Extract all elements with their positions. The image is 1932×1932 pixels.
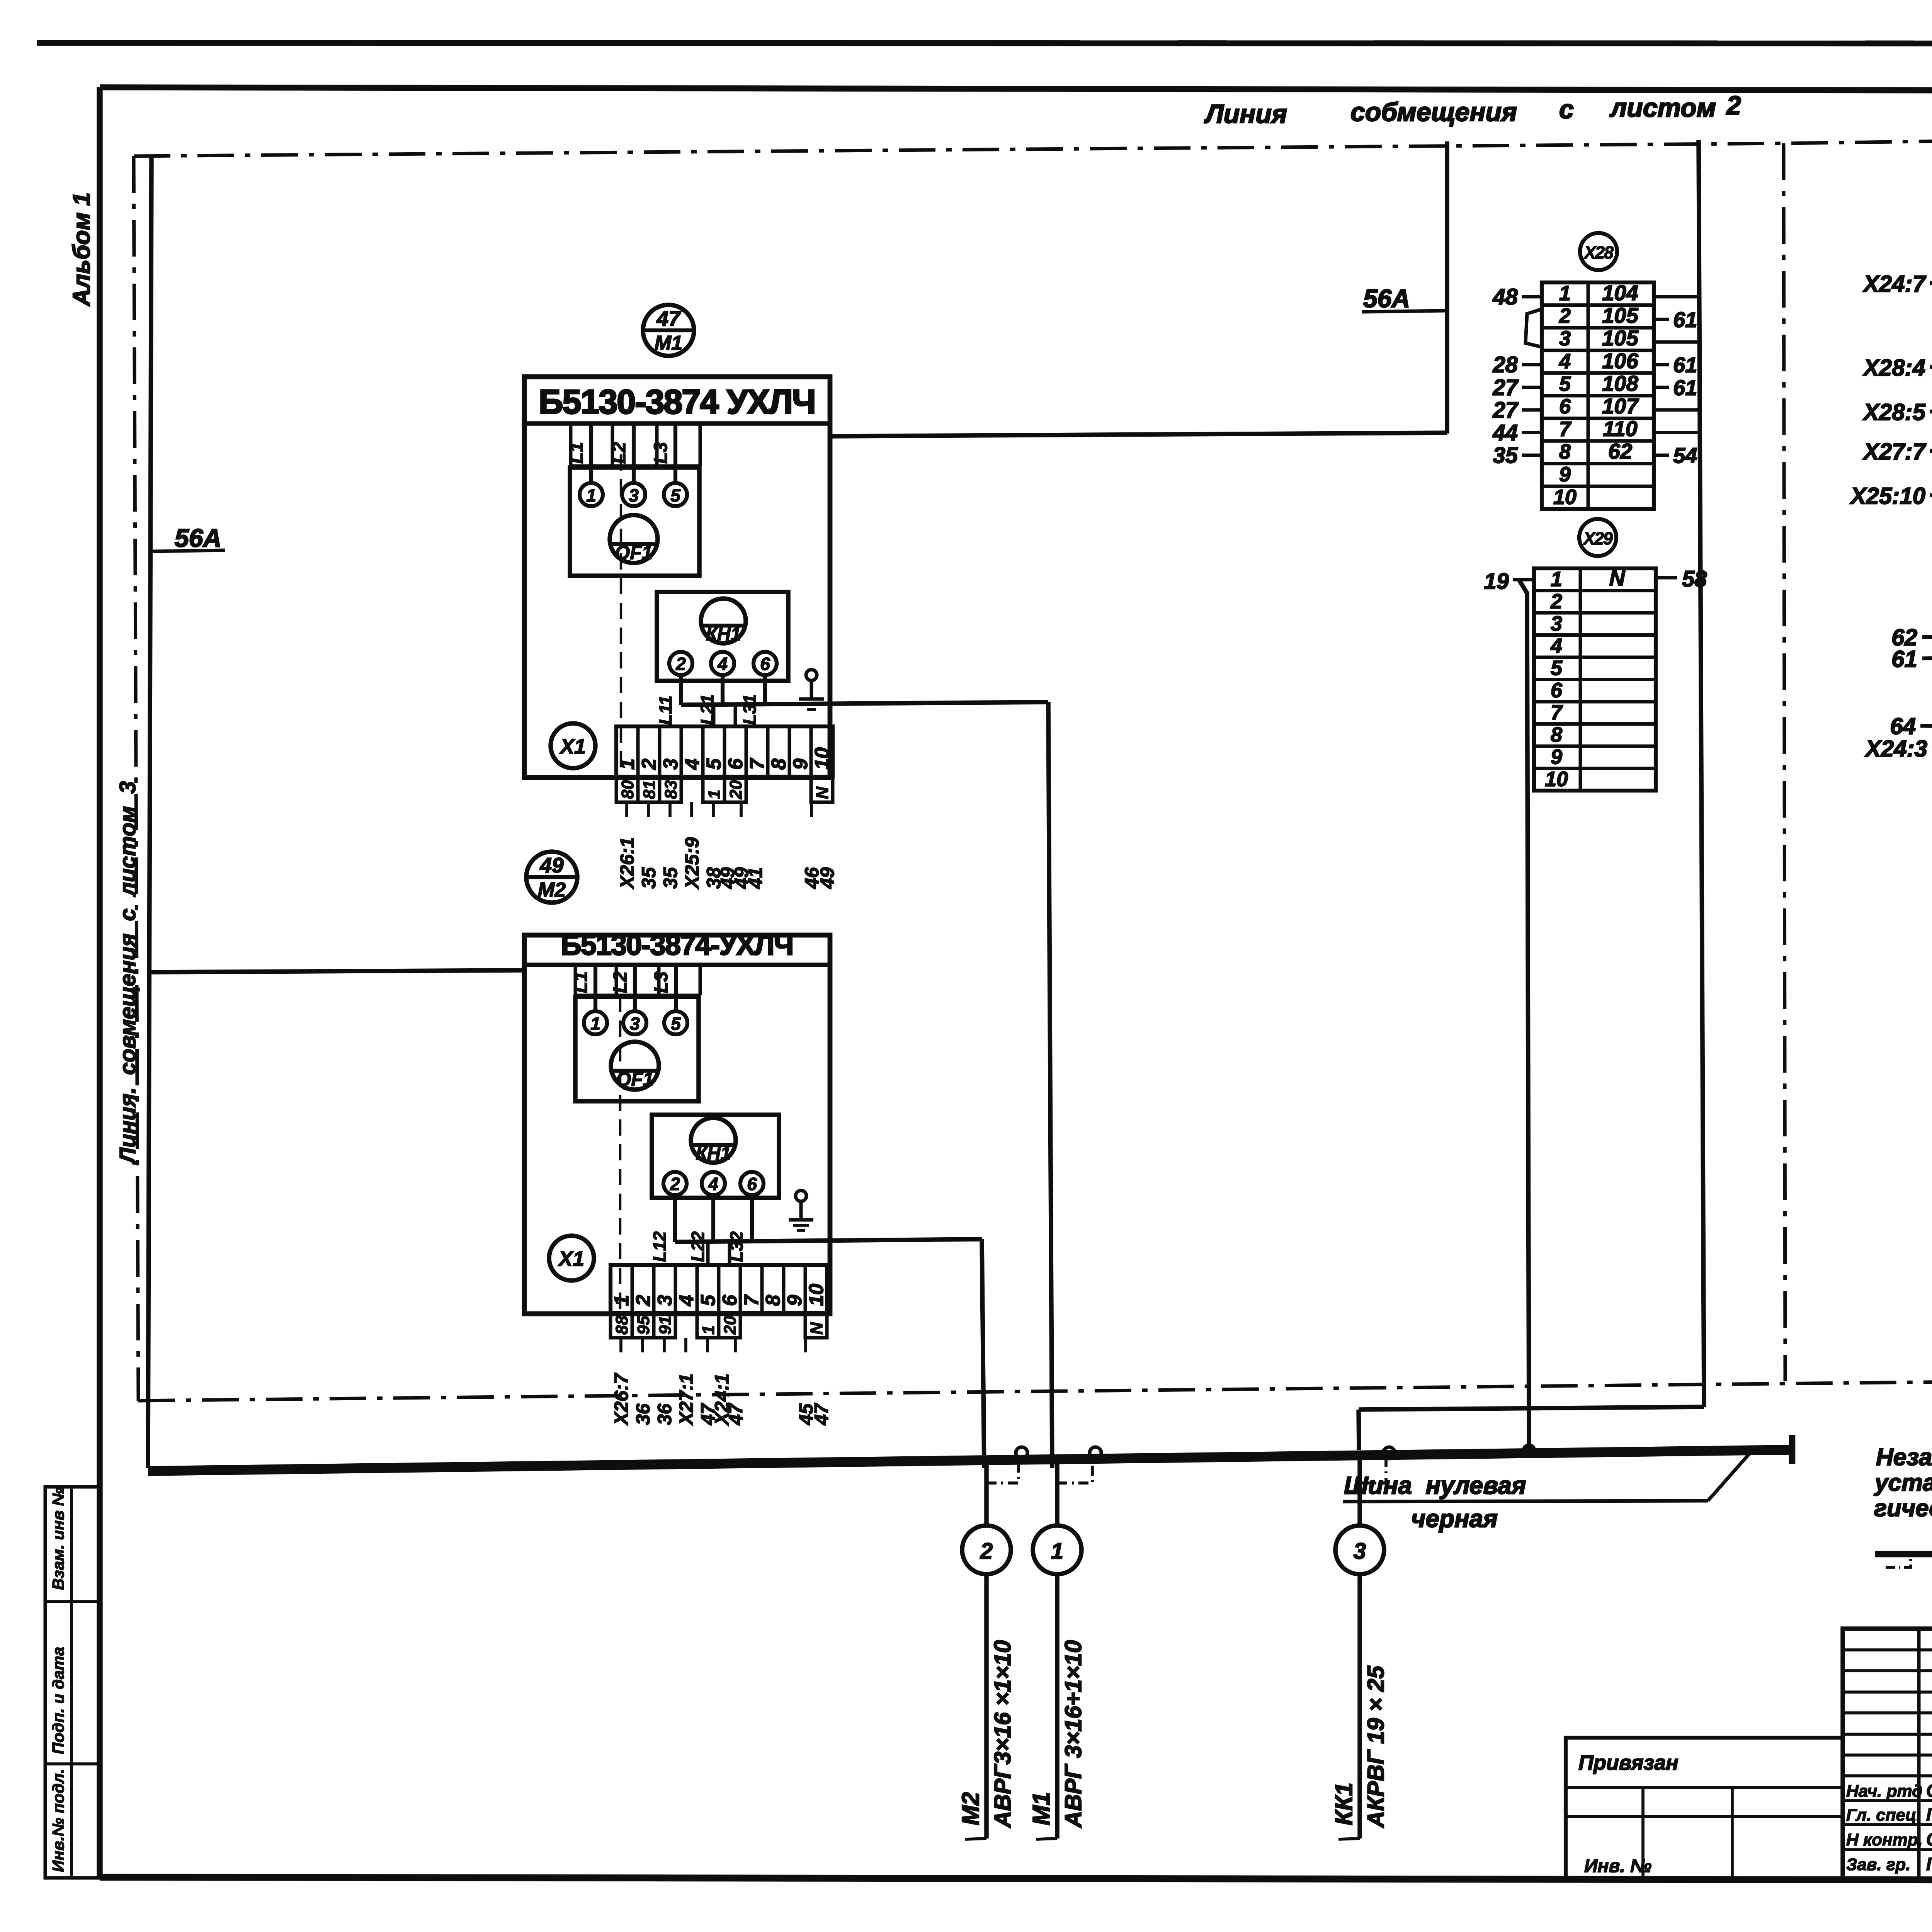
svg-text:7: 7 <box>746 758 769 770</box>
svg-text:Привязан: Привязан <box>1578 1751 1679 1774</box>
svg-text:3: 3 <box>1559 327 1571 350</box>
svg-text:91: 91 <box>656 1316 675 1335</box>
svg-text:35: 35 <box>638 867 660 889</box>
svg-text:27: 27 <box>1492 398 1519 423</box>
svg-text:X24:7: X24:7 <box>1862 271 1927 297</box>
svg-text:80: 80 <box>618 780 637 799</box>
svg-text:Инв.№ подл.: Инв.№ подл. <box>49 1769 67 1872</box>
svg-text:2: 2 <box>675 654 686 674</box>
svg-text:Линия. совмещения с листом: Линия. совмещения с листом 3 <box>115 781 140 1165</box>
svg-text:1: 1 <box>1051 1539 1063 1564</box>
svg-text:44: 44 <box>1492 420 1518 446</box>
svg-text:Сиганова: Сиганова <box>1926 1829 1932 1849</box>
svg-text:95: 95 <box>634 1316 653 1335</box>
svg-text:L1: L1 <box>571 971 591 993</box>
svg-text:М2: М2 <box>957 1792 984 1825</box>
svg-text:X26:1: X26:1 <box>616 837 638 890</box>
svg-text:3: 3 <box>660 759 682 770</box>
svg-text:61: 61 <box>1673 308 1697 332</box>
svg-text:2: 2 <box>1550 590 1562 613</box>
svg-text:собмещения: собмещения <box>1350 97 1517 127</box>
svg-text:N: N <box>807 1322 826 1335</box>
svg-text:10: 10 <box>811 747 833 770</box>
svg-text:106: 106 <box>1602 349 1638 373</box>
svg-text:Б5130-3874 УХЛЧ: Б5130-3874 УХЛЧ <box>539 383 815 421</box>
svg-text:X29: X29 <box>1582 529 1613 548</box>
svg-text:2: 2 <box>980 1539 993 1564</box>
svg-text:1: 1 <box>699 1325 718 1335</box>
svg-text:36: 36 <box>632 1403 654 1425</box>
svg-text:6: 6 <box>1559 395 1571 418</box>
svg-text:9: 9 <box>1559 463 1571 486</box>
svg-text:4: 4 <box>1550 634 1562 658</box>
svg-text:5: 5 <box>1559 372 1571 395</box>
svg-text:28: 28 <box>1492 352 1518 378</box>
svg-text:108: 108 <box>1602 371 1638 395</box>
svg-text:6: 6 <box>1551 679 1563 702</box>
svg-text:56А: 56А <box>175 524 221 552</box>
svg-text:61: 61 <box>1673 375 1697 400</box>
svg-text:61: 61 <box>1673 353 1697 377</box>
svg-text:8: 8 <box>1559 440 1571 463</box>
svg-text:Нач. ртд: Нач. ртд <box>1846 1782 1922 1801</box>
svg-text:АВРГ3×16 ×1×10: АВРГ3×16 ×1×10 <box>990 1640 1015 1828</box>
svg-text:8: 8 <box>768 759 790 770</box>
svg-text:КН1: КН1 <box>696 1143 731 1164</box>
svg-text:10: 10 <box>1553 485 1577 509</box>
svg-text:3: 3 <box>1354 1539 1366 1564</box>
svg-text:105: 105 <box>1602 326 1638 350</box>
svg-text:104: 104 <box>1602 281 1638 305</box>
svg-text:4: 4 <box>717 654 728 674</box>
svg-text:49: 49 <box>816 867 838 889</box>
svg-text:7: 7 <box>1559 418 1572 441</box>
svg-text:58: 58 <box>1682 566 1707 592</box>
svg-text:N: N <box>813 786 832 799</box>
svg-text:X25:10: X25:10 <box>1850 483 1925 509</box>
svg-text:Гисис: Гисис <box>1926 1804 1932 1825</box>
svg-text:1: 1 <box>590 1014 600 1034</box>
svg-text:10: 10 <box>805 1284 828 1306</box>
svg-text:Подп. и дата: Подп. и дата <box>49 1647 67 1754</box>
svg-text:47: 47 <box>656 306 681 330</box>
svg-text:1: 1 <box>705 790 724 799</box>
svg-text:Н контр.: Н контр. <box>1846 1830 1923 1849</box>
svg-text:36: 36 <box>654 1403 675 1425</box>
svg-text:83: 83 <box>662 780 680 799</box>
svg-text:L2: L2 <box>610 971 631 993</box>
svg-text:9: 9 <box>784 1295 806 1306</box>
svg-text:9: 9 <box>789 759 812 770</box>
svg-text:1: 1 <box>586 485 596 505</box>
svg-text:2: 2 <box>1726 91 1741 120</box>
svg-text:Шина нулевая: Шина нулевая <box>1344 1471 1526 1499</box>
svg-text:35: 35 <box>1493 443 1518 468</box>
svg-text:КК1: КК1 <box>1331 1782 1357 1825</box>
svg-text:QF1: QF1 <box>615 542 652 563</box>
svg-text:X25:9: X25:9 <box>681 837 703 890</box>
svg-text:X1: X1 <box>559 735 586 758</box>
svg-text:20: 20 <box>721 1316 740 1335</box>
svg-text:X28: X28 <box>1583 243 1614 262</box>
svg-text:L3: L3 <box>651 971 672 993</box>
svg-text:19: 19 <box>1484 569 1509 594</box>
svg-text:3: 3 <box>1551 612 1562 635</box>
svg-text:Гл. спец.: Гл. спец. <box>1846 1806 1921 1825</box>
svg-text:АВРГ 3×16+1×10: АВРГ 3×16+1×10 <box>1060 1640 1086 1828</box>
svg-text:9: 9 <box>1551 745 1562 769</box>
svg-text:листом: листом <box>1609 93 1716 122</box>
svg-text:62: 62 <box>1608 439 1632 463</box>
svg-text:4: 4 <box>681 759 704 770</box>
svg-text:3: 3 <box>629 485 639 505</box>
svg-text:4: 4 <box>675 1295 698 1306</box>
svg-text:10: 10 <box>1545 768 1568 791</box>
svg-text:2: 2 <box>632 1295 655 1306</box>
svg-text:5: 5 <box>670 485 681 505</box>
svg-text:5: 5 <box>703 758 725 770</box>
svg-text:L22: L22 <box>688 1231 708 1262</box>
svg-text:1: 1 <box>616 759 639 770</box>
svg-text:3: 3 <box>654 1295 676 1306</box>
svg-text:КН1: КН1 <box>706 624 741 645</box>
svg-text:L2: L2 <box>609 442 629 464</box>
svg-text:X28:4: X28:4 <box>1862 355 1925 381</box>
svg-text:48: 48 <box>1492 284 1518 310</box>
svg-text:Альбом 1: Альбом 1 <box>68 192 95 307</box>
svg-text:Взам. инв №: Взам. инв № <box>49 1487 67 1590</box>
svg-text:QF1: QF1 <box>616 1068 653 1090</box>
svg-text:N: N <box>1609 566 1626 590</box>
svg-text:Линия: Линия <box>1204 99 1287 129</box>
svg-text:41: 41 <box>745 867 766 889</box>
svg-text:1: 1 <box>611 1295 633 1306</box>
svg-text:27: 27 <box>1492 375 1519 400</box>
svg-text:М1: М1 <box>1028 1792 1055 1825</box>
svg-text:L12: L12 <box>650 1231 670 1262</box>
svg-text:X27:7: X27:7 <box>1862 439 1927 464</box>
svg-text:61: 61 <box>1891 646 1917 672</box>
svg-text:6: 6 <box>719 1294 741 1306</box>
svg-text:4: 4 <box>708 1174 718 1194</box>
svg-text:7: 7 <box>740 1294 763 1306</box>
svg-text:1: 1 <box>1551 568 1562 591</box>
svg-text:2: 2 <box>1559 304 1571 328</box>
svg-text:88: 88 <box>612 1316 631 1335</box>
svg-text:Б5130-3874-УХЛЧ: Б5130-3874-УХЛЧ <box>561 929 793 961</box>
svg-text:49: 49 <box>539 853 564 877</box>
svg-text:М2: М2 <box>538 879 566 901</box>
svg-text:20: 20 <box>726 780 745 799</box>
svg-text:L31: L31 <box>740 694 760 725</box>
svg-text:81: 81 <box>640 780 659 799</box>
svg-text:3: 3 <box>630 1014 640 1034</box>
svg-text:Инв. №: Инв. № <box>1584 1856 1651 1876</box>
svg-text:гическога процесса при нала: гическога процесса при наладке и опробов… <box>1874 1495 1932 1522</box>
svg-text:АКРВГ 19 × 25: АКРВГ 19 × 25 <box>1363 1665 1389 1828</box>
svg-text:105: 105 <box>1602 303 1638 328</box>
svg-text:8: 8 <box>762 1295 784 1306</box>
svg-text:7: 7 <box>1551 701 1563 724</box>
svg-text:47: 47 <box>811 1403 832 1425</box>
svg-text:Семин: Семин <box>1926 1781 1932 1801</box>
svg-text:64: 64 <box>1890 713 1916 739</box>
svg-text:6: 6 <box>747 1174 757 1194</box>
svg-text:X28:5: X28:5 <box>1862 399 1926 425</box>
svg-text:X24:3: X24:3 <box>1864 736 1927 762</box>
svg-text:8: 8 <box>1551 723 1562 747</box>
svg-text:6: 6 <box>760 654 770 674</box>
svg-text:устанавливаются для возможно: устанавливаются для возможности корректи… <box>1874 1469 1932 1496</box>
svg-text:5: 5 <box>671 1014 681 1034</box>
svg-text:Незакоммутированныв аппараты: Незакоммутированныв аппараты являются ре… <box>1876 1444 1932 1471</box>
svg-text:L3: L3 <box>651 442 671 464</box>
svg-text:2: 2 <box>638 759 660 770</box>
svg-text:L1: L1 <box>566 442 587 464</box>
svg-text:Парамонова: Парамонова <box>1926 1854 1932 1874</box>
svg-text:с: с <box>1559 95 1574 124</box>
svg-text:35: 35 <box>660 867 681 889</box>
svg-text:107: 107 <box>1602 394 1639 418</box>
svg-text:Зав. гр.: Зав. гр. <box>1846 1855 1910 1874</box>
svg-text:6: 6 <box>724 758 747 770</box>
svg-text:5: 5 <box>697 1294 719 1306</box>
svg-text:56А: 56А <box>1363 284 1410 313</box>
svg-text:М1: М1 <box>655 332 682 354</box>
svg-text:черная: черная <box>1411 1505 1498 1532</box>
svg-text:4: 4 <box>1559 350 1571 373</box>
svg-text:L11: L11 <box>655 696 675 725</box>
svg-text:5: 5 <box>1551 656 1563 680</box>
svg-text:X26:7: X26:7 <box>611 1372 632 1426</box>
svg-text:X27:1: X27:1 <box>675 1374 697 1426</box>
svg-text:1: 1 <box>1559 282 1571 305</box>
svg-text:110: 110 <box>1603 417 1637 441</box>
svg-text:2: 2 <box>670 1174 680 1194</box>
svg-text:X1: X1 <box>558 1247 584 1270</box>
svg-text:54: 54 <box>1673 443 1697 468</box>
svg-text:47: 47 <box>725 1403 747 1425</box>
